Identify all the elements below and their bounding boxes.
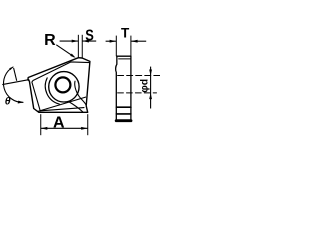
- svg-text:T: T: [121, 26, 130, 41]
- svg-text:R: R: [44, 32, 56, 49]
- svg-text:S: S: [85, 27, 94, 44]
- svg-text:φd: φd: [139, 79, 151, 93]
- svg-text:A: A: [53, 115, 65, 132]
